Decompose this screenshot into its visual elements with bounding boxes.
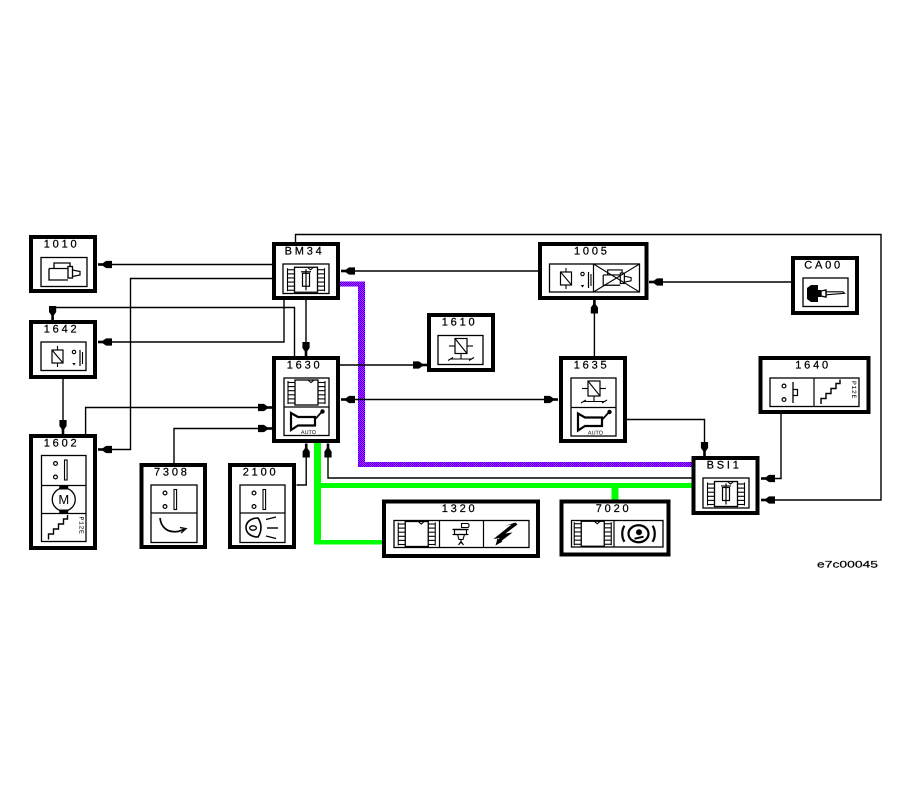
- svg-text:BM34: BM34: [285, 246, 325, 258]
- svg-text:AUTO: AUTO: [588, 431, 604, 437]
- svg-text:1005: 1005: [574, 246, 610, 258]
- svg-text:1635: 1635: [574, 360, 610, 372]
- svg-text:1602: 1602: [44, 438, 80, 450]
- svg-text:M: M: [58, 492, 69, 507]
- svg-text:1320: 1320: [442, 503, 478, 515]
- svg-text:7308: 7308: [154, 467, 190, 479]
- svg-text:1630: 1630: [287, 360, 323, 372]
- svg-text:P12E: P12E: [78, 517, 85, 535]
- svg-text:1610: 1610: [442, 317, 478, 329]
- svg-text:CA00: CA00: [804, 260, 843, 272]
- svg-text:e7c00045: e7c00045: [817, 560, 878, 571]
- svg-text:1642: 1642: [44, 324, 80, 336]
- svg-text:1640: 1640: [795, 360, 831, 372]
- svg-text:7020: 7020: [596, 503, 632, 515]
- svg-text:BSI1: BSI1: [707, 460, 742, 472]
- svg-text:2100: 2100: [243, 467, 279, 479]
- svg-text:AUTO: AUTO: [301, 430, 317, 436]
- svg-text:P12E: P12E: [850, 381, 857, 399]
- svg-text:1010: 1010: [44, 239, 80, 251]
